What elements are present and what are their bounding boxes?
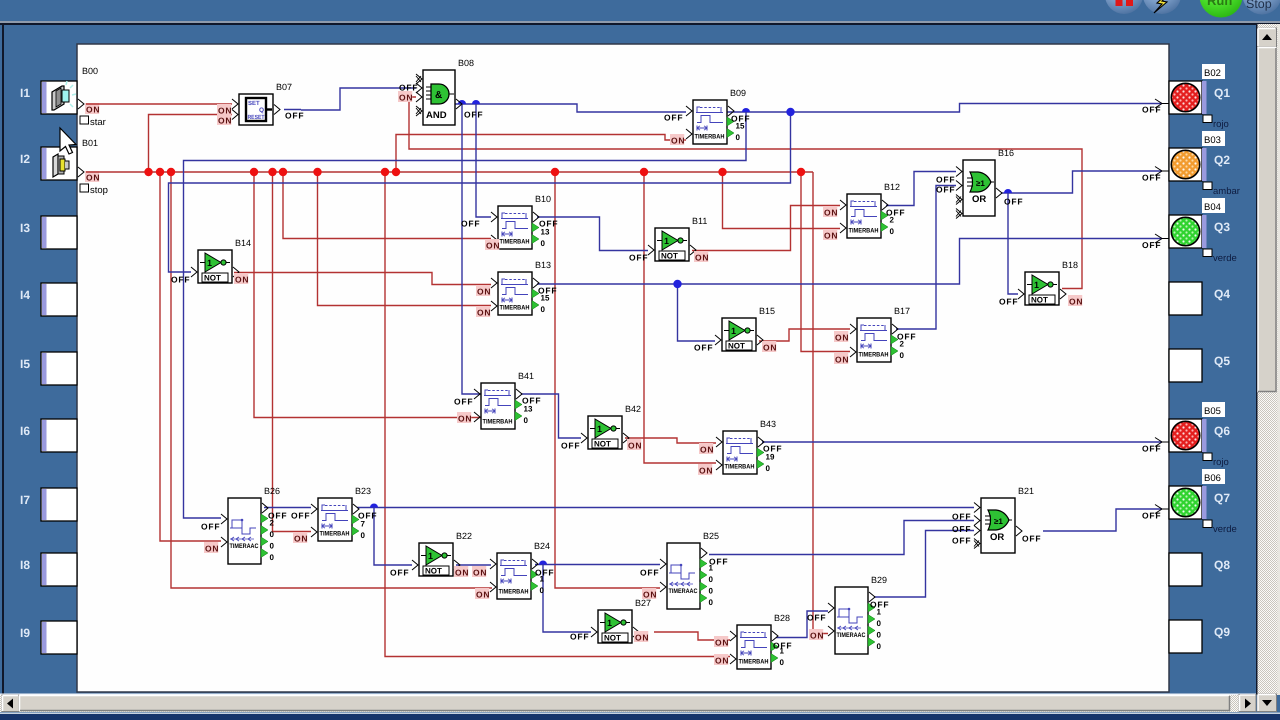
svg-text:ON: ON <box>715 656 729 666</box>
wire B22 out to B24 in1 <box>456 564 491 566</box>
svg-text:B14: B14 <box>235 238 251 248</box>
svg-text:Q: Q <box>259 107 264 114</box>
junction B16 out <box>1004 189 1012 193</box>
wire <box>86 171 813 173</box>
svg-text:SET: SET <box>248 100 260 107</box>
junction B23 out <box>370 504 378 508</box>
svg-text:0: 0 <box>709 587 714 596</box>
wire B21 out to Q7 <box>1043 509 1162 531</box>
svg-text:Q4: Q4 <box>1214 287 1230 301</box>
svg-text:B10: B10 <box>535 194 551 204</box>
svg-text:B22: B22 <box>456 531 472 541</box>
svg-text:ambar: ambar <box>1213 186 1240 197</box>
pushbutton icon I2 <box>53 154 69 177</box>
node bus junction <box>268 168 276 176</box>
svg-text:0: 0 <box>524 416 529 425</box>
svg-text:TIMERBAH: TIMERBAH <box>499 589 529 596</box>
svg-text:B08: B08 <box>458 58 474 68</box>
svg-text:Q2: Q2 <box>1214 153 1230 167</box>
svg-text:13: 13 <box>541 228 550 237</box>
svg-text:OFF: OFF <box>999 297 1018 307</box>
svg-text:0: 0 <box>877 619 882 628</box>
svg-text:0: 0 <box>540 586 545 595</box>
node B00 (input I1 pin) <box>78 66 106 128</box>
wire B15 out to B17 in1 <box>759 329 850 341</box>
bottom window strip <box>0 713 1280 715</box>
wire bus to B13 in2 <box>318 172 492 306</box>
svg-text:TIMERBAH: TIMERBAH <box>695 134 725 141</box>
svg-text:B02: B02 <box>1204 68 1221 79</box>
wire B17 out to B16 in2 <box>896 186 956 330</box>
node bus junction <box>797 168 805 176</box>
input block I3 <box>20 216 77 249</box>
svg-text:Q9: Q9 <box>1214 625 1230 639</box>
timer B17 <box>850 306 910 362</box>
output block Q3 <box>1169 198 1237 264</box>
svg-text:OFF: OFF <box>538 286 557 296</box>
svg-text:Stop: Stop <box>1246 0 1272 11</box>
svg-text:OFF: OFF <box>629 253 648 263</box>
svg-text:Q8: Q8 <box>1214 558 1230 572</box>
svg-text:1: 1 <box>428 551 433 561</box>
node bus junction <box>551 168 559 176</box>
wire bus to B43 in2 <box>644 172 716 463</box>
wire B10 out to B11 in <box>537 217 648 251</box>
svg-text:ON: ON <box>455 568 469 578</box>
input block I5 <box>20 352 77 385</box>
wire B28 out to B29 in1 <box>776 611 828 638</box>
svg-text:ON: ON <box>835 333 849 343</box>
svg-text:OFF: OFF <box>285 111 304 121</box>
svg-text:OFF: OFF <box>171 275 190 285</box>
output block Q4 <box>1169 282 1230 315</box>
RS latch B07 <box>232 82 292 125</box>
input block I1 <box>20 81 77 114</box>
svg-text:B24: B24 <box>534 541 550 551</box>
wire bus to B41 in2 <box>254 172 481 418</box>
timer B26 <box>221 486 280 564</box>
NOT gate B42 <box>581 404 641 449</box>
svg-text:B23: B23 <box>355 486 371 496</box>
svg-text:OFF: OFF <box>897 332 916 342</box>
NOT gate B27 <box>591 598 651 643</box>
svg-text:ON: ON <box>763 343 777 353</box>
svg-text:B21: B21 <box>1018 486 1034 496</box>
wire B13 out to Q3 <box>537 239 1162 285</box>
wire branch to B22 in <box>374 508 412 566</box>
toolbar button step (lightning) <box>1143 0 1181 14</box>
svg-text:OFF: OFF <box>731 114 750 124</box>
toolbar separator <box>0 21 1280 23</box>
NOT gate B15 <box>715 306 775 351</box>
svg-text:Q6: Q6 <box>1214 424 1230 438</box>
svg-text:OFF: OFF <box>936 185 955 195</box>
svg-text:0: 0 <box>541 239 546 248</box>
svg-text:OFF: OFF <box>1004 197 1023 207</box>
toolbar button Run <box>1200 0 1243 18</box>
wire B24 out to B25 in1 <box>535 564 660 566</box>
svg-text:B03: B03 <box>1204 135 1221 146</box>
svg-text:TIMERBAH: TIMERBAH <box>320 531 350 538</box>
switch icon I1 <box>52 81 76 110</box>
wire B43 out to Q6 <box>762 441 1162 443</box>
svg-text:OFF: OFF <box>291 511 310 521</box>
wire B25 out to B21 in2 <box>709 521 974 555</box>
wire B26 out to B23 in1 <box>264 507 311 509</box>
svg-text:OFF: OFF <box>952 524 971 534</box>
svg-text:≥1: ≥1 <box>994 517 1003 526</box>
svg-text:OR: OR <box>990 532 1004 543</box>
wire bus to B12 in2 <box>723 172 841 229</box>
node bus junction <box>250 168 258 176</box>
svg-text:I6: I6 <box>20 424 30 438</box>
wire B16 out to Q2 <box>1001 171 1162 193</box>
svg-text:NOT: NOT <box>1031 296 1048 305</box>
timer B29 <box>828 575 887 654</box>
timer B09 <box>686 88 746 144</box>
wire B42 out to B43 in1 <box>625 438 716 443</box>
svg-text:ON: ON <box>294 534 308 544</box>
svg-text:0: 0 <box>900 351 905 360</box>
output block Q8 <box>1169 553 1230 586</box>
svg-text:B07: B07 <box>276 82 292 92</box>
output arrow <box>1155 505 1169 514</box>
svg-text:NOT: NOT <box>728 342 745 351</box>
svg-text:ON: ON <box>473 568 487 578</box>
svg-text:I4: I4 <box>20 288 30 302</box>
svg-text:TIMERBAH: TIMERBAH <box>483 419 513 426</box>
svg-text:Q7: Q7 <box>1214 491 1230 505</box>
svg-text:0: 0 <box>766 464 771 473</box>
node bus junction <box>156 168 164 176</box>
svg-text:TIMERBAH: TIMERBAH <box>500 305 530 312</box>
svg-text:B18: B18 <box>1062 260 1078 270</box>
svg-text:OFF: OFF <box>763 444 782 454</box>
svg-text:OFF: OFF <box>886 208 905 218</box>
output block Q1 <box>1169 64 1230 130</box>
svg-text:ON: ON <box>399 93 413 103</box>
timer B23 <box>311 486 371 541</box>
svg-text:ON: ON <box>700 445 714 455</box>
timer B25 <box>660 531 719 609</box>
svg-text:OFF: OFF <box>952 512 971 522</box>
wire B11 out to B12 in1 <box>692 206 840 251</box>
wire B07 out stub <box>284 109 301 111</box>
wire B09 out to B26 in1 <box>184 112 747 518</box>
svg-text:7: 7 <box>361 520 366 529</box>
svg-text:ON: ON <box>810 631 824 641</box>
node bus junction <box>167 168 175 176</box>
svg-text:OFF: OFF <box>454 397 473 407</box>
node bus junction <box>392 168 400 176</box>
junction B09 out <box>742 108 750 112</box>
svg-text:AND: AND <box>426 110 447 121</box>
svg-text:OFF: OFF <box>1022 534 1041 544</box>
OR gate B16 <box>956 148 1014 219</box>
svg-text:OFF: OFF <box>936 175 955 185</box>
svg-text:OR: OR <box>972 194 986 205</box>
wire bus to B29 in2 <box>813 172 828 634</box>
svg-text:0: 0 <box>361 531 366 540</box>
svg-text:0: 0 <box>780 658 785 667</box>
NOT gate B14 <box>191 238 251 283</box>
left window border <box>2 23 4 695</box>
svg-text:&: & <box>435 90 442 101</box>
timer B28 <box>730 613 790 669</box>
svg-text:B06: B06 <box>1204 473 1221 484</box>
svg-text:OFF: OFF <box>1142 105 1161 115</box>
svg-text:ON: ON <box>628 441 642 451</box>
wire B18 out to B08 in3 <box>409 97 1082 289</box>
NOT gate B22 <box>412 531 472 576</box>
svg-text:I7: I7 <box>20 493 30 507</box>
junction B24 out <box>539 561 547 565</box>
wire B12 out to B16 in1 <box>886 172 956 206</box>
svg-text:B41: B41 <box>518 371 534 381</box>
svg-text:stop: stop <box>90 185 108 196</box>
svg-text:NOT: NOT <box>594 440 611 449</box>
svg-text:B27: B27 <box>635 598 651 608</box>
input block I6 <box>20 419 77 452</box>
svg-text:OFF: OFF <box>807 613 826 623</box>
svg-text:B29: B29 <box>871 575 887 585</box>
svg-text:B00: B00 <box>82 66 98 76</box>
svg-text:OFF: OFF <box>1142 511 1161 521</box>
svg-text:I8: I8 <box>20 558 30 572</box>
timer B12 <box>840 182 900 238</box>
svg-text:0: 0 <box>270 553 275 562</box>
svg-text:OFF: OFF <box>870 600 889 610</box>
output block Q2 <box>1169 131 1240 197</box>
wire B08 out to B09 in1 <box>455 104 686 112</box>
svg-text:B01: B01 <box>82 138 98 148</box>
svg-text:1: 1 <box>207 258 212 268</box>
wire B07 out to B08 in2 <box>301 88 416 110</box>
svg-text:I3: I3 <box>20 221 30 235</box>
svg-text:13: 13 <box>524 405 533 414</box>
svg-text:0: 0 <box>270 530 275 539</box>
svg-text:0: 0 <box>890 227 895 236</box>
svg-text:B43: B43 <box>760 419 776 429</box>
svg-text:NOT: NOT <box>425 567 442 576</box>
node B09 out junction <box>786 108 794 116</box>
svg-text:ON: ON <box>205 544 219 554</box>
svg-text:OFF: OFF <box>1142 173 1161 183</box>
input block I8 <box>20 553 77 586</box>
toolbar button pause <box>1105 0 1143 14</box>
svg-text:1: 1 <box>664 236 669 246</box>
node bus junction <box>279 168 287 176</box>
wire bus to B07 reset <box>149 115 233 173</box>
output block Q6 <box>1169 402 1230 468</box>
node bus junction <box>718 168 726 176</box>
wire bus to B25 in2 <box>555 172 660 588</box>
svg-text:ON: ON <box>86 105 100 115</box>
svg-text:Run: Run <box>1207 0 1232 8</box>
svg-text:RESET: RESET <box>248 114 265 121</box>
svg-text:0: 0 <box>877 642 882 651</box>
wire branch to B27 in <box>543 565 591 633</box>
svg-text:I5: I5 <box>20 357 30 371</box>
junction B08 out a <box>458 100 466 104</box>
timer B41 <box>474 371 534 429</box>
svg-text:B16: B16 <box>998 148 1014 158</box>
svg-text:≥1: ≥1 <box>976 179 985 188</box>
svg-text:1: 1 <box>1034 280 1039 290</box>
wire B08 out to B10 in1 <box>476 104 491 217</box>
wire <box>86 103 232 105</box>
svg-text:OFF: OFF <box>461 219 480 229</box>
wire B09 out to B14 in <box>169 112 791 272</box>
svg-text:ON: ON <box>699 466 713 476</box>
input block I4 <box>20 283 77 316</box>
output arrow <box>1155 167 1169 176</box>
svg-text:rojo: rojo <box>1213 457 1229 468</box>
output block Q9 <box>1169 620 1230 653</box>
wire bus to B28 in2 <box>385 172 730 657</box>
svg-text:OFF: OFF <box>640 568 659 578</box>
svg-text:TIMERAAC: TIMERAAC <box>230 543 259 550</box>
svg-text:OFF: OFF <box>709 557 728 567</box>
svg-text:I9: I9 <box>20 626 30 640</box>
svg-text:ON: ON <box>671 136 685 146</box>
svg-text:Q3: Q3 <box>1214 220 1230 234</box>
wire B16 out to B18 in <box>1008 193 1018 294</box>
output arrow <box>1155 438 1169 447</box>
wire bus to B23 in2 <box>273 172 312 532</box>
svg-text:1: 1 <box>597 424 602 434</box>
svg-text:B09: B09 <box>730 88 746 98</box>
svg-text:OFF: OFF <box>773 641 792 651</box>
wire bus to B17 in2 <box>801 172 850 352</box>
svg-text:B15: B15 <box>759 306 775 316</box>
svg-text:B26: B26 <box>264 486 280 496</box>
svg-text:ON: ON <box>835 355 849 365</box>
wire B41 out to B42 in <box>521 394 581 438</box>
wire B08 out to B41 in1 <box>462 104 481 394</box>
node bus junction <box>640 168 648 176</box>
output arrow <box>1155 99 1169 108</box>
svg-text:OFF: OFF <box>561 441 580 451</box>
svg-text:OFF: OFF <box>358 511 377 521</box>
svg-text:NOT: NOT <box>661 252 678 261</box>
output block Q5 <box>1169 349 1230 382</box>
svg-text:0: 0 <box>541 305 546 314</box>
svg-text:ON: ON <box>715 638 729 648</box>
svg-text:I2: I2 <box>20 152 30 166</box>
svg-text:OFF: OFF <box>570 632 589 642</box>
OR gate B21 <box>974 486 1034 553</box>
timer B10 <box>491 194 551 249</box>
svg-text:OFF: OFF <box>664 113 683 123</box>
svg-text:OFF: OFF <box>952 536 971 546</box>
wire branch to B15 in <box>678 284 716 341</box>
svg-text:TIMERBAH: TIMERBAH <box>849 228 879 235</box>
svg-text:B05: B05 <box>1204 406 1221 417</box>
svg-text:I1: I1 <box>20 86 30 100</box>
svg-text:1: 1 <box>607 618 612 628</box>
input block I9 <box>20 621 77 654</box>
vertical scrollbar <box>1256 24 1280 712</box>
wire B29 out to B21 in3 <box>874 531 974 598</box>
node B13 out junction <box>673 280 681 288</box>
svg-text:B17: B17 <box>894 306 910 316</box>
svg-text:OFF: OFF <box>535 568 554 578</box>
wire bus to B24 in2 <box>171 172 492 588</box>
wire bus to B09 in2 <box>396 135 686 173</box>
drawing canvas <box>77 44 1169 692</box>
svg-text:TIMERBAH: TIMERBAH <box>859 352 889 359</box>
svg-text:ON: ON <box>477 287 491 297</box>
wire B14 out to B13 in1 <box>234 273 491 285</box>
horizontal scrollbar <box>0 694 1256 713</box>
svg-text:OFF: OFF <box>201 522 220 532</box>
svg-text:ON: ON <box>643 590 657 600</box>
svg-text:0: 0 <box>270 542 275 551</box>
node B01 (input I2 pin) <box>78 138 108 196</box>
svg-text:ON: ON <box>218 116 232 126</box>
wire B27 out to B28 in1 <box>654 632 730 640</box>
node bus junction <box>381 168 389 176</box>
svg-text:TIMERBAH: TIMERBAH <box>500 239 530 246</box>
svg-text:0: 0 <box>877 631 882 640</box>
svg-text:ON: ON <box>486 241 500 251</box>
svg-text:verde: verde <box>1213 253 1237 264</box>
svg-text:B28: B28 <box>774 613 790 623</box>
timer B43 <box>716 419 776 474</box>
svg-text:ON: ON <box>86 173 100 183</box>
svg-text:OFF: OFF <box>390 568 409 578</box>
svg-text:ON: ON <box>824 231 838 241</box>
input block I2 <box>20 147 77 180</box>
mouse cursor <box>60 128 76 154</box>
svg-text:0: 0 <box>709 598 714 607</box>
junction B08 out b <box>472 100 480 104</box>
svg-text:0: 0 <box>709 575 714 584</box>
svg-text:B12: B12 <box>884 182 900 192</box>
svg-text:TIMERAAC: TIMERAAC <box>669 588 698 595</box>
svg-text:TIMERBAH: TIMERBAH <box>725 464 755 471</box>
svg-text:ON: ON <box>1069 297 1083 307</box>
wire B23 out to B21 in1 <box>357 507 974 509</box>
svg-text:ON: ON <box>824 208 838 218</box>
NOT gate B18 <box>1018 260 1078 305</box>
svg-text:NOT: NOT <box>204 274 221 283</box>
svg-text:OFF: OFF <box>539 219 558 229</box>
output block Q7 <box>1169 469 1237 535</box>
svg-text:OFF: OFF <box>464 110 483 120</box>
timer B24 <box>490 541 550 599</box>
svg-text:Q1: Q1 <box>1214 86 1230 100</box>
svg-text:ON: ON <box>476 590 490 600</box>
wire B09 out to Q1 <box>726 104 1162 113</box>
svg-text:B42: B42 <box>625 404 641 414</box>
timer B13 <box>491 260 551 315</box>
node bus junction <box>313 168 321 176</box>
wire bus to B26 in2 <box>160 172 221 541</box>
svg-text:1: 1 <box>731 326 736 336</box>
NOT gate B11 <box>648 216 707 261</box>
svg-text:Q5: Q5 <box>1214 354 1230 368</box>
svg-text:OFF: OFF <box>268 511 287 521</box>
svg-text:star: star <box>90 117 106 128</box>
output arrow <box>1155 234 1169 243</box>
AND gate B08 <box>416 58 474 125</box>
svg-text:ON: ON <box>458 414 472 424</box>
toolbar button Stop <box>1243 0 1280 15</box>
node bus junction <box>144 168 152 176</box>
svg-text:ON: ON <box>695 253 709 263</box>
